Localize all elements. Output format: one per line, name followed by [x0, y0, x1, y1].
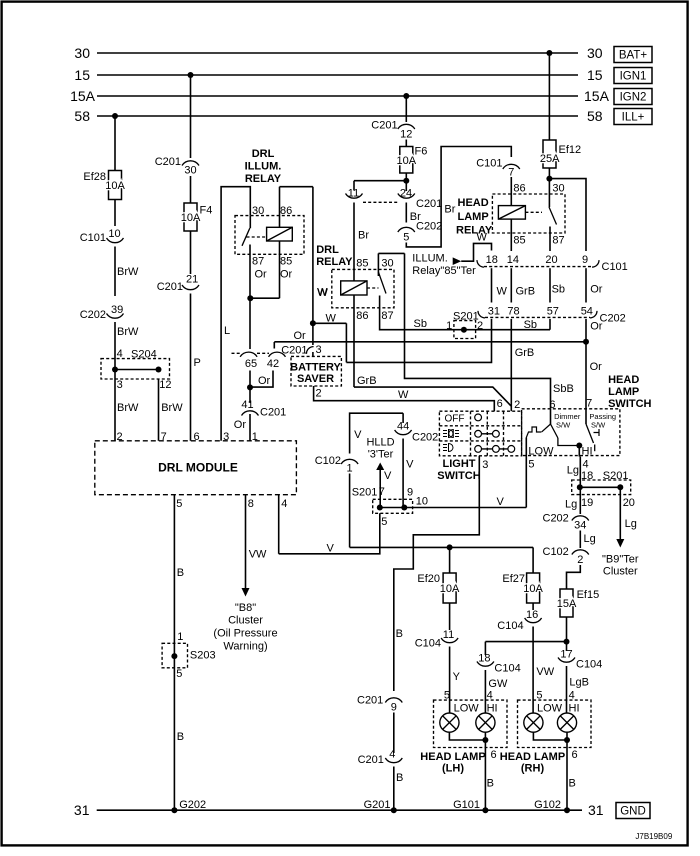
svg-text:S/W: S/W — [591, 421, 606, 430]
head lamp relay dashed box — [492, 194, 565, 233]
svg-text:GrB: GrB — [357, 375, 377, 387]
wire bus58 to Ef28 — [114, 116, 116, 171]
wire C102.2 to Ef15 — [567, 565, 581, 589]
svg-text:VW: VW — [536, 666, 554, 678]
svg-text:2: 2 — [117, 431, 123, 443]
wire Lg passing pin4 through S201 — [579, 457, 581, 515]
wire V to Ef27 — [532, 547, 534, 573]
connector C201 dashed link 65-42 left — [232, 352, 241, 354]
svg-text:G201: G201 — [364, 799, 391, 811]
arrow to B8 cluster — [242, 588, 250, 597]
wire B LH lamp to G101 — [484, 740, 486, 810]
svg-text:C201: C201 — [155, 156, 181, 168]
svg-text:15: 15 — [74, 67, 90, 83]
icon head lights — [443, 444, 453, 452]
svg-text:C202: C202 — [412, 432, 438, 444]
wire L: DRL module pin3 up to DRL illum relay 30 — [221, 187, 250, 441]
bulb LH high beam — [476, 713, 495, 732]
svg-text:3: 3 — [482, 459, 488, 471]
svg-text:1: 1 — [177, 631, 183, 643]
svg-text:B: B — [396, 628, 403, 640]
svg-text:'3'Ter: '3'Ter — [368, 449, 394, 461]
head lamp relay coil — [498, 206, 525, 220]
DRL relay switch pin line — [377, 253, 379, 276]
svg-text:LgB: LgB — [569, 677, 589, 689]
wire GrB C101.14 to C202.78 — [510, 268, 512, 302]
splice S203 box — [162, 643, 187, 668]
connector C104 pin17 — [558, 658, 575, 663]
wire link DRL relay 30 — [378, 252, 404, 254]
bus 15A (IGN2) — [97, 95, 578, 97]
svg-text:C201: C201 — [358, 754, 384, 766]
wire bus15A to C201.12 — [405, 96, 407, 122]
svg-text:9: 9 — [582, 254, 588, 266]
wire Or C101.9 to C202.54 — [585, 268, 587, 302]
svg-text:2: 2 — [477, 320, 483, 332]
svg-text:18: 18 — [486, 254, 498, 266]
fuse Ef27 10A — [527, 573, 540, 603]
svg-text:85: 85 — [356, 258, 368, 270]
svg-text:DRL: DRL — [252, 148, 275, 160]
svg-text:(RH): (RH) — [521, 763, 545, 775]
light switch col divider 1 — [470, 411, 472, 456]
svg-text:RELAY: RELAY — [316, 256, 353, 268]
fuse Ef12 25A — [543, 140, 556, 168]
wire B C201.4 to G201 — [393, 767, 395, 811]
svg-text:6: 6 — [572, 749, 578, 761]
svg-text:34: 34 — [574, 520, 586, 532]
svg-text:G101: G101 — [453, 799, 480, 811]
wire LgB C104.17 to RH hi lamp — [566, 666, 568, 714]
svg-text:GND: GND — [620, 806, 646, 818]
junction dimmer HI — [576, 443, 582, 449]
bus 30 (BAT+) — [97, 52, 578, 54]
wire LH low to junction — [449, 732, 485, 740]
svg-text:Sb: Sb — [524, 319, 537, 331]
svg-text:4: 4 — [583, 459, 589, 471]
svg-text:C201: C201 — [157, 281, 183, 293]
svg-text:10A: 10A — [440, 583, 460, 595]
svg-text:20: 20 — [545, 254, 557, 266]
splice S203 dot — [171, 653, 177, 659]
svg-text:BrW: BrW — [117, 266, 139, 278]
wire V HLLD arrow to S201.7 — [379, 470, 381, 508]
svg-text:30: 30 — [381, 258, 393, 270]
wire Or down to C201.65 — [249, 298, 251, 349]
svg-text:C102: C102 — [543, 546, 569, 558]
svg-text:F6: F6 — [415, 146, 428, 158]
splice S201 link3 and wire to dimmer pin5 — [380, 507, 527, 509]
svg-text:HLLD: HLLD — [366, 437, 394, 449]
svg-text:(Oil Pressure: (Oil Pressure — [213, 628, 277, 640]
connector C202 pin5 — [398, 227, 415, 232]
svg-text:17: 17 — [560, 649, 572, 661]
svg-text:30: 30 — [587, 45, 603, 61]
junction W net — [310, 320, 316, 326]
junction LH lamp ground — [482, 737, 488, 743]
svg-text:20: 20 — [623, 497, 635, 509]
passing switch symbol — [585, 409, 587, 424]
svg-text:58: 58 — [74, 108, 90, 124]
junction Ef12 out — [546, 176, 552, 182]
connector C101 row left arc — [477, 260, 484, 267]
svg-text:W: W — [497, 286, 508, 298]
svg-text:C201: C201 — [416, 198, 442, 210]
arrow to ILLUM relay 85 terminal — [453, 257, 462, 265]
splice S201 link2 — [580, 486, 621, 488]
connector C202 pin34 — [572, 516, 589, 521]
head lamp LH dashed box — [434, 700, 508, 747]
svg-text:C101: C101 — [80, 232, 106, 244]
svg-text:Warning): Warning) — [223, 641, 267, 653]
box GND — [616, 803, 650, 819]
splice S204 box — [101, 359, 170, 379]
svg-text:BrW: BrW — [161, 402, 183, 414]
DRL illum relay dashed box — [235, 216, 304, 255]
connector C202 pin44 — [395, 430, 412, 435]
svg-text:"B8": "B8" — [235, 602, 256, 614]
fuse F6 10A — [400, 147, 413, 174]
svg-text:BATTERY: BATTERY — [290, 362, 341, 374]
svg-text:2: 2 — [577, 554, 583, 566]
svg-text:F4: F4 — [200, 205, 213, 217]
bus 58 (ILL+) — [97, 115, 578, 117]
svg-text:5: 5 — [176, 668, 182, 680]
svg-text:85: 85 — [280, 256, 292, 268]
wire W battery saver pin2 to light switch pin6 — [314, 386, 495, 411]
connector C201 pin4 — [385, 758, 402, 763]
wire join 87/85 — [250, 297, 280, 299]
svg-text:C202: C202 — [80, 309, 106, 321]
wire Or C201.41 to DRL module pin1 — [249, 414, 251, 441]
splice S201 dot3a — [377, 505, 383, 511]
svg-text:7: 7 — [161, 431, 167, 443]
svg-text:RELAY: RELAY — [245, 173, 282, 185]
svg-text:ILL+: ILL+ — [622, 112, 645, 124]
svg-text:12: 12 — [159, 379, 171, 391]
svg-text:V: V — [327, 543, 335, 555]
svg-text:C104: C104 — [415, 637, 441, 649]
svg-text:9: 9 — [391, 702, 397, 714]
wire P C201.21 to DRL module pin6 — [190, 294, 192, 441]
wire Br C201.11 to DRL relay 85 — [353, 203, 355, 281]
svg-text:BAT+: BAT+ — [619, 50, 648, 62]
wire GW C104.18 to LH hi lamp — [484, 670, 486, 714]
junction 87/85 Or — [247, 295, 253, 301]
wire down to C201.11 — [353, 181, 355, 191]
svg-text:86: 86 — [513, 183, 525, 195]
wire Or C202.54 to passing switch pin7 — [585, 319, 587, 409]
svg-text:16: 16 — [526, 609, 538, 621]
wire BrW S204.12 to DRL module pin7 — [158, 379, 160, 441]
connector C201 dashed link 11-24 — [363, 201, 398, 203]
wire down to C104.18 — [484, 642, 486, 655]
connector C201 pin11 — [346, 194, 363, 199]
svg-text:B: B — [569, 778, 576, 790]
connector C202 row left arc — [478, 311, 485, 318]
svg-text:GrB: GrB — [515, 347, 535, 359]
dimmer switch symbol — [550, 409, 552, 424]
wire Or to battery saver C201.3 — [312, 323, 314, 345]
svg-text:HEAD: HEAD — [608, 374, 639, 386]
svg-text:5: 5 — [528, 459, 534, 471]
connector C101 row right arc — [592, 260, 599, 267]
connector C201 pin9 — [385, 698, 402, 703]
wire W relay 85 to C101.14 — [510, 219, 512, 251]
svg-text:C202: C202 — [600, 313, 626, 325]
wire V C202.44 to S201.9 — [402, 439, 404, 508]
svg-text:Or: Or — [234, 419, 247, 431]
wire W from illum relay 85 ter to C101.18 — [461, 243, 491, 261]
svg-text:12: 12 — [400, 129, 412, 141]
svg-text:10: 10 — [416, 496, 428, 508]
connector C202 row right arc — [590, 311, 597, 318]
svg-text:78: 78 — [507, 306, 519, 318]
wire coil 85 out — [279, 241, 281, 298]
wire Lg S201.20 to B9 cluster — [619, 487, 621, 539]
connector C201 pin12 — [398, 124, 415, 129]
wire Sb C101.20 to C202.57 — [549, 268, 551, 302]
svg-text:C104: C104 — [576, 659, 602, 671]
svg-text:10: 10 — [108, 228, 120, 240]
wire BrW C101.10 to C202.39 — [114, 247, 116, 297]
svg-text:30: 30 — [74, 45, 90, 61]
arrow to HLLD 3 terminal — [376, 463, 384, 471]
wire Sb relay 87 to C101.20 — [549, 233, 551, 251]
svg-text:V: V — [354, 429, 362, 441]
svg-text:Ef12: Ef12 — [559, 144, 582, 156]
junction Or pin54 branch — [583, 339, 589, 345]
svg-text:5: 5 — [176, 498, 182, 510]
svg-text:HEAD: HEAD — [458, 197, 489, 209]
wire VW C104.16 to RH low lamp — [532, 627, 534, 714]
DRL relay switch contact — [379, 296, 381, 308]
wire W C101.18 to C202.31 — [491, 268, 493, 302]
head lamp RH dashed box — [518, 700, 592, 747]
svg-text:10A: 10A — [181, 212, 201, 224]
light switch col divider 3 — [503, 411, 505, 456]
svg-text:11: 11 — [443, 629, 454, 641]
svg-text:15A: 15A — [70, 88, 96, 104]
connector row C202 dashed line — [485, 316, 590, 318]
wire Y C104.11 to LH low lamp — [449, 647, 451, 714]
wire W C202.31 down-left to DRL relay net — [346, 319, 491, 363]
wire B C201.9 to C201.4 — [393, 713, 395, 754]
svg-text:3: 3 — [316, 344, 322, 356]
svg-text:W: W — [317, 287, 328, 299]
wire Sb DRL relay 87 to C202.57 via S201 — [380, 308, 550, 330]
connector C201 pin65 — [240, 352, 257, 357]
bulb RH high beam — [557, 713, 576, 732]
wire Ef27 to C104.16 — [532, 603, 534, 610]
svg-text:V: V — [497, 496, 505, 508]
box ILL+ — [614, 109, 652, 125]
svg-text:HI: HI — [569, 703, 580, 715]
wire V C102.1 down to V trunk — [349, 474, 351, 548]
wire GrB to light switch pin2 diagonal — [354, 387, 511, 406]
svg-text:86: 86 — [280, 205, 292, 217]
svg-text:DRL: DRL — [316, 244, 339, 256]
svg-text:Br: Br — [444, 204, 455, 216]
svg-text:Lg: Lg — [565, 499, 577, 511]
svg-text:ILLUM.: ILLUM. — [412, 253, 447, 265]
connector C201 pin41 — [242, 411, 259, 416]
splice S204 link — [115, 369, 159, 371]
svg-text:Lg: Lg — [625, 518, 637, 530]
fuse Ef15 15A — [560, 589, 573, 617]
wire Br C202.5 up to C101.7 — [406, 147, 511, 247]
light switch contact row3 — [475, 446, 515, 453]
box BAT+ — [614, 47, 652, 63]
connector C201 pin3 — [306, 347, 313, 354]
svg-text:BrW: BrW — [117, 402, 139, 414]
wire SbB DRL relay 30 to dimmer switch pin6 — [405, 253, 551, 408]
wire C101.7 to relay coil 86 — [510, 177, 512, 206]
splice S204 dot left — [112, 367, 118, 373]
light switch dashed box — [439, 411, 521, 456]
svg-text:31: 31 — [588, 802, 604, 818]
wire Ef28 to C101.10 — [114, 200, 116, 227]
wire C201.30 to F4 — [190, 176, 192, 203]
splice S201 dot3b — [401, 505, 407, 511]
fuse Ef20 10A — [443, 573, 456, 603]
svg-text:Or: Or — [280, 269, 293, 281]
svg-text:L: L — [224, 325, 230, 337]
junction V trunk / Ef20 — [447, 544, 453, 550]
svg-text:IGN2: IGN2 — [620, 92, 647, 104]
wire B DRL module pin5 through S203 to G202 — [173, 495, 175, 811]
svg-text:SAVER: SAVER — [297, 373, 334, 385]
dimmer passing dashed box — [522, 409, 620, 456]
svg-text:Lg: Lg — [567, 465, 579, 477]
wire bus30 to Ef12 — [548, 53, 550, 140]
svg-text:Cluster: Cluster — [603, 566, 638, 578]
head lamp relay switch pin line — [548, 194, 550, 207]
DRL illum relay coil — [267, 227, 293, 241]
svg-text:5: 5 — [381, 516, 387, 528]
svg-text:5: 5 — [403, 232, 409, 244]
junction Or 65/42 — [247, 384, 253, 390]
svg-text:Ef15: Ef15 — [577, 589, 600, 601]
svg-text:SbB: SbB — [553, 383, 574, 395]
junction bus15A / F6 feed — [403, 93, 409, 99]
svg-text:1: 1 — [446, 320, 452, 332]
svg-text:19: 19 — [581, 497, 593, 509]
splice S201 dot2b — [617, 484, 623, 490]
svg-text:VW: VW — [249, 549, 267, 561]
svg-text:14: 14 — [507, 254, 519, 266]
svg-text:LAMP: LAMP — [458, 211, 489, 223]
box IGN2 — [614, 89, 652, 105]
wire Ef20 to C104.11 — [449, 603, 451, 630]
svg-text:58: 58 — [587, 108, 603, 124]
svg-text:8: 8 — [248, 498, 254, 510]
connector C201 pin24 — [398, 194, 415, 199]
fuse Ef28 10A — [109, 171, 122, 200]
wire branch to C104.18 — [485, 641, 566, 643]
wire C201.12 to F6 — [405, 140, 407, 147]
svg-text:10A: 10A — [523, 583, 543, 595]
connector row C101 dashed line — [484, 266, 592, 268]
connector C201 pin21 — [182, 285, 199, 290]
wire V dimmer pin5 down — [525, 438, 527, 508]
ground G101 — [482, 807, 488, 813]
wire Sb C202.57 down — [549, 319, 551, 330]
svg-text:SWITCH: SWITCH — [437, 470, 480, 482]
wire W DRL illum 86 link down — [312, 187, 314, 324]
head lamp relay switch contact — [549, 227, 551, 234]
svg-text:Sb: Sb — [414, 318, 427, 330]
svg-text:J7B19B09: J7B19B09 — [635, 832, 672, 841]
bus 31 ground — [97, 809, 582, 811]
svg-text:G202: G202 — [179, 799, 206, 811]
svg-text:C201: C201 — [371, 120, 397, 132]
svg-text:7: 7 — [586, 398, 592, 410]
wire Br C201.24 to C202.5 — [405, 203, 407, 223]
wire W riser down — [345, 323, 347, 362]
wire bus15 to C201.30 — [190, 75, 192, 158]
splice S201 box1 — [454, 321, 476, 339]
svg-text:6: 6 — [491, 749, 497, 761]
splice S201 box3 — [373, 499, 413, 513]
svg-text:GW: GW — [488, 678, 508, 690]
svg-text:4: 4 — [281, 498, 287, 510]
wire VW DRL module pin8 — [245, 495, 247, 588]
svg-text:7: 7 — [379, 486, 385, 498]
svg-text:C202: C202 — [416, 221, 442, 233]
svg-text:Y: Y — [453, 671, 461, 683]
svg-text:18: 18 — [478, 653, 490, 665]
light switch contact row2 — [475, 430, 500, 437]
svg-text:Ef28: Ef28 — [83, 171, 106, 183]
svg-text:GrB: GrB — [516, 286, 536, 298]
svg-text:4: 4 — [389, 749, 395, 761]
DRL relay coil — [341, 281, 367, 295]
junction bus15 / F4 feed — [188, 72, 194, 78]
splice S201 dot1 — [461, 327, 467, 333]
svg-text:41: 41 — [241, 399, 253, 411]
wire 87 out — [249, 245, 251, 299]
svg-text:HEAD LAMP: HEAD LAMP — [500, 751, 565, 763]
svg-text:SWITCH: SWITCH — [608, 398, 651, 410]
svg-text:C201: C201 — [260, 407, 286, 419]
svg-text:3: 3 — [223, 431, 229, 443]
DRL relay switch blade — [378, 272, 386, 294]
svg-text:Or: Or — [590, 321, 603, 333]
svg-text:57: 57 — [547, 306, 559, 318]
svg-text:C202: C202 — [543, 512, 569, 524]
svg-text:B: B — [177, 567, 184, 579]
svg-text:W: W — [477, 232, 488, 244]
svg-text:DRL MODULE: DRL MODULE — [158, 461, 238, 475]
splice S201 box2 — [572, 480, 631, 495]
svg-text:7: 7 — [508, 167, 514, 179]
light switch contact row1 — [475, 414, 482, 421]
svg-text:C104: C104 — [497, 620, 523, 632]
battery saver dashed box — [291, 356, 341, 386]
connector C102 pin2 — [572, 550, 589, 555]
icon parking lights — [443, 430, 459, 438]
svg-text:Lg: Lg — [584, 533, 596, 545]
svg-text:W: W — [326, 313, 337, 325]
wire LH hi to junction — [484, 732, 486, 740]
svg-text:LIGHT: LIGHT — [443, 458, 476, 470]
svg-text:42: 42 — [267, 358, 279, 370]
svg-text:C101: C101 — [476, 158, 502, 170]
svg-text:2: 2 — [316, 388, 322, 400]
ground G201 — [391, 807, 397, 813]
wire RH hi to junction — [566, 732, 568, 740]
